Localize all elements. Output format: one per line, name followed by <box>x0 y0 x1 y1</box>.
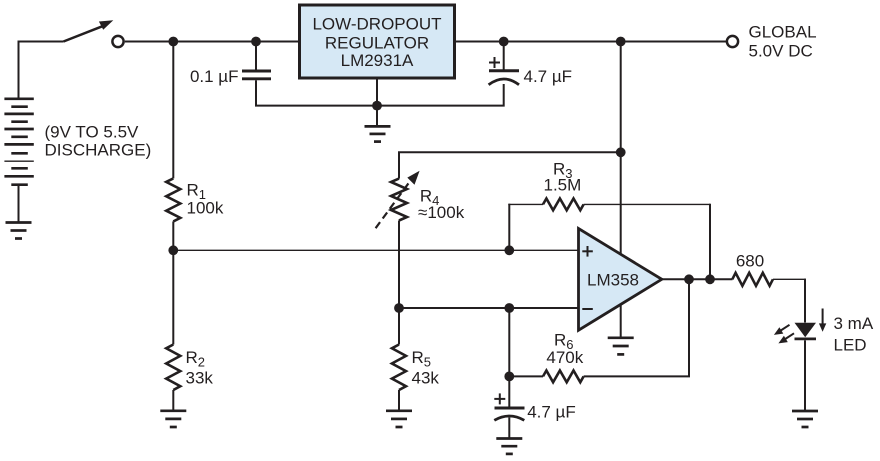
wire switch to regulator (top rail left) <box>125 41 299 43</box>
label R6 470k <box>546 330 583 367</box>
ground (R5) <box>386 411 412 427</box>
node: rail / C1 junction <box>251 37 261 47</box>
wire R4 top <box>399 152 621 178</box>
potentiometer R4 zigzag <box>391 179 407 221</box>
LED D1 triangle <box>795 323 817 337</box>
svg-text:4.7 µF: 4.7 µF <box>527 403 576 422</box>
svg-text:REGULATOR: REGULATOR <box>325 34 429 53</box>
capacitor C1 0.1uF top lead <box>255 42 257 70</box>
svg-text:33k: 33k <box>186 369 214 388</box>
ground (C3) <box>496 439 522 454</box>
resistor R3 right lead <box>584 203 710 205</box>
svg-text:DISCHARGE): DISCHARGE) <box>45 141 152 160</box>
LED current arrow <box>822 309 824 326</box>
svg-text:680: 680 <box>736 252 764 271</box>
label R5 43k <box>412 348 440 388</box>
wire R6 right vertical <box>584 279 689 376</box>
label R3 1.5M <box>544 159 582 194</box>
label GLOBAL 5.0V DC <box>749 22 817 60</box>
output terminal circle <box>727 36 738 47</box>
node: rail / 5V vertical junction <box>616 37 626 47</box>
potentiometer R4 dashed arrow <box>376 178 413 228</box>
switch S1 terminal circle <box>112 36 123 47</box>
resistor R6 zigzag <box>543 371 584 383</box>
node: output / R3 feedback junction <box>705 274 715 284</box>
wire divider to op-amp + input <box>173 249 578 251</box>
ground (battery) <box>6 223 32 239</box>
label 3 mA LED <box>834 314 874 355</box>
capacitor C3 flat plate <box>495 407 525 410</box>
resistor R6 left lead <box>509 375 543 377</box>
resistor R2 bottom lead <box>172 390 174 411</box>
capacitor C3 curved plate <box>494 416 524 420</box>
switch S1 blade <box>64 26 104 42</box>
resistor R1 top lead <box>172 42 174 179</box>
svg-text:43k: 43k <box>412 369 440 388</box>
node: - input / R6 junction <box>504 303 514 313</box>
node: R4/R5 divider junction <box>394 303 404 313</box>
capacitor C3 plus sign <box>494 393 505 404</box>
resistor R2 top lead <box>172 250 174 344</box>
node: + input / R3 junction <box>504 245 514 255</box>
switch S1 arrowhead <box>99 20 113 30</box>
capacitor C3 top lead <box>508 376 510 408</box>
wire divider to op-amp - input <box>399 307 579 309</box>
capacitor C1 plates <box>242 71 271 79</box>
ground (op-amp) <box>608 338 634 355</box>
svg-text:5.0V DC: 5.0V DC <box>749 41 813 60</box>
resistor R5 zigzag <box>392 345 406 391</box>
node: R4 top tee <box>616 147 626 157</box>
LED bottom lead <box>804 340 806 411</box>
resistor R2 zigzag <box>166 345 180 391</box>
regulator U1 text <box>312 15 441 71</box>
wire 680 to LED <box>773 278 806 280</box>
label R1 100k <box>187 180 224 217</box>
svg-text:1.5M: 1.5M <box>544 175 582 194</box>
LED emission arrow 2 <box>784 333 795 340</box>
wire R4 bottom to R5 <box>398 221 400 345</box>
wire battery top to switch <box>19 42 64 99</box>
svg-text:LED: LED <box>834 336 867 355</box>
svg-text:3 mA: 3 mA <box>834 314 874 333</box>
op-amp ground pin wire <box>620 305 622 338</box>
wire 5V rail down to R4 tee and op-amp top <box>620 42 622 255</box>
resistor R5 bottom lead <box>398 390 400 411</box>
wire regulator to output terminal (top rail right) <box>455 41 727 43</box>
svg-text:LOW-DROPOUT: LOW-DROPOUT <box>312 15 441 34</box>
resistor R1 zigzag <box>166 178 180 221</box>
node: output / R6 feedback junction <box>684 274 694 284</box>
capacitor C2 4.7uF top lead <box>503 42 505 71</box>
node: ground net junction <box>372 101 382 111</box>
ground (regulator) <box>365 126 391 141</box>
regulator U1 LM2931A box <box>300 5 455 78</box>
LED emission arrow 1 <box>779 325 790 332</box>
wire battery bottom to ground <box>18 185 20 223</box>
capacitor C1 bottom lead + wire to ground node <box>256 80 504 105</box>
resistor R3 zigzag <box>543 199 584 211</box>
ground (R2) <box>160 411 186 427</box>
svg-text:≈100k: ≈100k <box>418 203 465 222</box>
ground (LED) <box>792 411 818 427</box>
node: R6 / C3 junction <box>504 372 514 382</box>
wire - input node down to R6 <box>508 308 510 376</box>
capacitor C2 flat plate <box>489 69 519 72</box>
capacitor C2 plus sign <box>489 57 500 68</box>
svg-text:4.7 µF: 4.7 µF <box>524 67 573 86</box>
resistor R1 bottom lead <box>172 221 174 250</box>
svg-text:100k: 100k <box>187 199 224 218</box>
op-amp - symbol <box>582 308 593 310</box>
node: rail / R1 junction <box>168 37 178 47</box>
LED D1 cathode bar <box>795 337 817 340</box>
svg-text:470k: 470k <box>546 348 583 367</box>
capacitor C2 curved plate <box>489 79 519 85</box>
node: rail / C2 junction <box>499 37 509 47</box>
wire op-amp output <box>662 278 733 280</box>
node: R1/R2 divider junction <box>168 245 178 255</box>
label R4 ~100k <box>418 187 465 223</box>
battery label (9V TO 5.5V DISCHARGE) <box>45 123 152 160</box>
wire R3 left vertical <box>508 204 510 251</box>
label R2 33k <box>186 348 214 388</box>
potentiometer R4 arrowhead <box>407 171 419 185</box>
regulator ground pin wire <box>376 78 378 106</box>
wire R3 right vertical to output <box>709 204 711 280</box>
svg-text:LM2931A: LM2931A <box>341 51 414 70</box>
capacitor C3 bottom lead <box>508 418 510 439</box>
battery B1 <box>4 99 33 185</box>
svg-text:LM358: LM358 <box>587 270 639 289</box>
svg-text:(9V TO 5.5V: (9V TO 5.5V <box>45 123 140 142</box>
svg-text:0.1 µF: 0.1 µF <box>190 67 239 86</box>
op-amp U2 LM358 triangle <box>579 229 662 331</box>
svg-text:GLOBAL: GLOBAL <box>749 22 817 41</box>
op-amp + symbol <box>582 246 593 257</box>
wire ground node down <box>376 106 378 126</box>
resistor R3 left lead <box>508 203 543 205</box>
resistor 680 zigzag <box>732 273 773 286</box>
